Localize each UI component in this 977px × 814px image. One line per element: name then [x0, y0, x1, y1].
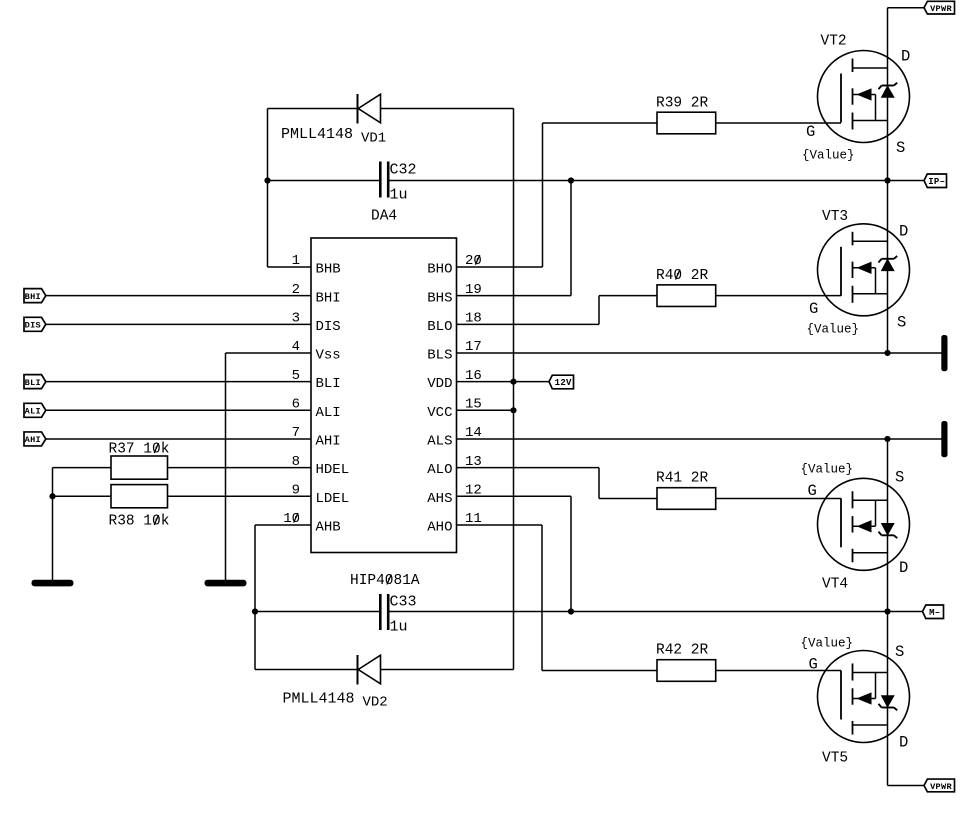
svg-text:BHB: BHB	[316, 262, 341, 278]
svg-text:M–: M–	[929, 608, 940, 618]
svg-text:VT2: VT2	[821, 34, 847, 50]
svg-text:AHO: AHO	[427, 520, 452, 536]
svg-text:{Value}: {Value}	[807, 323, 860, 337]
svg-text:{Value}: {Value}	[801, 637, 854, 651]
wire C32 left	[268, 180, 381, 182]
node R38 junction	[49, 493, 55, 499]
svg-text:S: S	[895, 643, 904, 661]
svg-text:VPWR: VPWR	[930, 782, 952, 792]
wire AHS pin12	[457, 495, 572, 497]
IC DA4 HIP4081A body	[311, 238, 457, 553]
wire R42 right to gate	[716, 670, 841, 672]
svg-text:LDEL: LDEL	[316, 491, 350, 507]
power flag IP-	[924, 174, 947, 188]
terminal bar ALS	[941, 421, 947, 457]
input flag AHI	[24, 432, 46, 446]
svg-text:AHI: AHI	[25, 435, 41, 445]
resistor R39	[657, 112, 716, 134]
svg-text:IP–: IP–	[928, 177, 945, 187]
wire bus ALS-VT4-M	[887, 439, 889, 612]
svg-text:1u: 1u	[390, 619, 408, 636]
svg-text:VT5: VT5	[822, 751, 848, 767]
wire VD2 left	[255, 669, 358, 671]
wire VPWR bottom	[888, 785, 925, 787]
wire ALI to pin	[46, 409, 311, 411]
resistor R42	[657, 660, 716, 682]
transistor VT3	[818, 224, 910, 316]
node BLS/VT3 source junction	[884, 350, 890, 356]
wire IP- net	[388, 180, 924, 182]
svg-text:ALI: ALI	[25, 407, 41, 417]
wire R37/R38 vertical to ground	[52, 468, 54, 580]
wire R40 right to gate	[716, 295, 841, 297]
node VDD pin16 junction	[510, 379, 516, 385]
wire pin4 Vss	[226, 352, 312, 354]
svg-text:DIS: DIS	[316, 319, 341, 335]
wire VD1 right	[381, 108, 514, 110]
capacitor C32	[380, 162, 388, 198]
ground Vss	[205, 580, 247, 587]
resistor R41	[657, 488, 716, 510]
terminal bar BLS	[941, 335, 947, 371]
svg-text:VT4: VT4	[822, 577, 848, 593]
wire BHB vertical	[267, 109, 269, 268]
svg-text:BHI: BHI	[25, 292, 41, 302]
capacitor C33	[380, 594, 388, 630]
svg-text:VPWR: VPWR	[930, 4, 952, 14]
svg-text:R37 10k: R37 10k	[109, 442, 170, 458]
wire VD2 right	[381, 669, 514, 671]
node VT2 source junction	[884, 177, 890, 183]
svg-text:VD1: VD1	[361, 131, 386, 147]
wire bus VPWR-VT2-IP	[887, 8, 889, 181]
transistor VT5	[818, 651, 910, 743]
wire Vss vertical	[225, 353, 227, 580]
transistor VT4	[818, 478, 910, 570]
svg-text:AHS: AHS	[427, 491, 452, 507]
wire VPWR top	[888, 7, 925, 9]
diode VD1	[358, 94, 381, 124]
wire AHI to pin	[46, 438, 311, 440]
wire BLI to pin	[46, 381, 311, 383]
svg-text:BHI: BHI	[316, 290, 341, 306]
node BHS junction on IP-	[568, 177, 574, 183]
wire pin1 BHB	[268, 266, 312, 268]
wire VD1 left	[268, 108, 358, 110]
svg-text:G: G	[808, 482, 817, 500]
svg-text:R42 2R: R42 2R	[656, 643, 709, 659]
transistor VT2	[818, 51, 910, 143]
svg-text:D: D	[899, 559, 908, 577]
wire R39 right to gate	[716, 122, 841, 124]
wire BLO pin18	[457, 323, 600, 325]
resistor R38	[111, 485, 168, 508]
svg-text:S: S	[897, 314, 906, 332]
svg-text:BHS: BHS	[427, 290, 452, 306]
svg-text:VT3: VT3	[822, 209, 848, 225]
svg-text:R39 2R: R39 2R	[656, 96, 709, 112]
diode VD2	[358, 655, 381, 685]
svg-text:Vss: Vss	[316, 348, 341, 364]
wire C33 left	[255, 611, 380, 613]
power flag 12V	[549, 375, 574, 389]
input flag BHI	[24, 289, 46, 303]
wire DIS to pin	[46, 323, 311, 325]
svg-text:BHO: BHO	[427, 262, 452, 278]
power flag VPWR bottom	[924, 779, 955, 792]
wire ALS pin14	[457, 438, 942, 440]
wire bus M-VT5-VPWR	[887, 612, 889, 786]
wire R42 left	[542, 670, 657, 672]
svg-text:DIS: DIS	[25, 321, 41, 331]
wire pin10 AHB	[255, 524, 311, 526]
wire BHI to pin	[46, 295, 311, 297]
node AHB/C33 junction	[252, 608, 258, 614]
resistor R40	[657, 285, 716, 307]
svg-text:HDEL: HDEL	[316, 462, 350, 478]
power flag VPWR top	[924, 1, 955, 14]
wire bus IP-VT3-BLS	[887, 181, 889, 353]
svg-text:VCC: VCC	[427, 405, 452, 421]
node VCC pin15 junction	[510, 407, 516, 413]
wire BHS pin19	[457, 295, 572, 297]
svg-text:BLI: BLI	[316, 376, 341, 392]
svg-text:PMLL4148: PMLL4148	[283, 691, 355, 708]
wire BLS pin17	[457, 352, 942, 354]
svg-text:VDD: VDD	[427, 376, 452, 392]
svg-text:VD2: VD2	[363, 695, 388, 711]
input flag BLI	[24, 375, 46, 389]
svg-text:BLI: BLI	[25, 378, 41, 388]
svg-text:G: G	[809, 300, 818, 318]
svg-text:ALI: ALI	[316, 405, 341, 421]
wire VDD pin16	[457, 381, 550, 383]
svg-text:R41 2R: R41 2R	[656, 471, 709, 487]
node VT4 drain junction	[884, 608, 890, 614]
node AHS junction on M-	[568, 608, 574, 614]
node ALS/VT4 source junction	[884, 436, 890, 442]
wire R41 right to gate	[716, 498, 841, 500]
svg-text:G: G	[809, 656, 818, 674]
wire AHB vertical	[254, 525, 256, 670]
svg-text:ALS: ALS	[427, 434, 452, 450]
wire AHO pin11	[457, 524, 543, 526]
svg-text:BLS: BLS	[427, 348, 452, 364]
svg-text:G: G	[806, 123, 815, 141]
svg-text:C32: C32	[390, 162, 417, 179]
svg-text:AHI: AHI	[316, 434, 341, 450]
wire R39 left	[543, 122, 658, 124]
wire VDD vertical rail	[513, 109, 515, 670]
wire ALO pin13	[457, 467, 600, 469]
svg-text:D: D	[899, 223, 908, 241]
svg-text:{Value}: {Value}	[802, 149, 855, 163]
svg-text:BLO: BLO	[427, 319, 452, 335]
svg-text:DA4: DA4	[371, 209, 397, 225]
node BHB/C32 junction	[264, 177, 270, 183]
svg-text:D: D	[899, 734, 908, 752]
svg-text:ALO: ALO	[427, 462, 452, 478]
svg-text:HIP4081A: HIP4081A	[350, 573, 420, 589]
resistor R37	[111, 456, 168, 479]
input flag ALI	[24, 403, 46, 417]
svg-text:R38 10k: R38 10k	[109, 514, 170, 530]
svg-text:PMLL4148: PMLL4148	[281, 126, 353, 143]
svg-text:12V: 12V	[555, 378, 572, 388]
ground R37/R38	[32, 580, 74, 587]
svg-text:R40 2R: R40 2R	[656, 268, 709, 284]
svg-text:{Value}: {Value}	[801, 463, 854, 477]
svg-text:1u: 1u	[390, 187, 408, 204]
svg-text:D: D	[901, 48, 910, 66]
wire M- net	[388, 611, 922, 613]
svg-text:C33: C33	[390, 594, 417, 611]
svg-text:S: S	[896, 139, 905, 157]
wire R38 left	[53, 495, 112, 497]
wire VCC pin15	[457, 409, 514, 411]
svg-text:S: S	[895, 469, 904, 487]
wire LDEL pin9	[168, 495, 312, 497]
wire R37 left	[53, 467, 112, 469]
power flag M-	[923, 605, 944, 619]
wire BHO pin20	[457, 266, 543, 268]
svg-text:AHB: AHB	[316, 520, 341, 536]
wire HDEL pin8	[168, 467, 312, 469]
input flag DIS	[24, 317, 46, 331]
